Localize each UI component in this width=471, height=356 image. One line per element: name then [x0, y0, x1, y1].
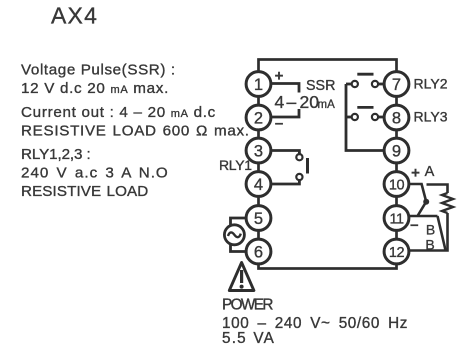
svg-text:5.5 VA: 5.5 VA	[222, 330, 275, 347]
svg-text:RLY3: RLY3	[414, 109, 448, 125]
svg-text:240 V a.c 3 A N.O: 240 V a.c 3 A N.O	[21, 165, 169, 182]
terminal 5	[246, 206, 271, 231]
terminal 11	[384, 206, 409, 231]
svg-text:10: 10	[389, 177, 405, 193]
svg-text:Current out : 4 – 20 mA d.c: Current out : 4 – 20 mA d.c	[21, 104, 216, 121]
wire: relay common down to terminal 9	[346, 84, 385, 151]
svg-text:–: –	[275, 115, 283, 132]
wire: power bracket terminals 5-6	[231, 218, 247, 252]
contact circle top (RLY1)	[296, 154, 302, 160]
terminal 7	[384, 72, 409, 97]
RLY3 contact circles	[352, 114, 358, 120]
svg-text:4: 4	[254, 176, 263, 194]
svg-text:AX4: AX4	[51, 3, 98, 29]
svg-text:RLY2: RLY2	[414, 76, 448, 92]
wire: RLY2 left to common	[346, 83, 352, 86]
svg-text:A: A	[425, 164, 435, 180]
svg-text:Voltage Pulse(SSR) :: Voltage Pulse(SSR) :	[21, 62, 176, 79]
svg-text:2: 2	[254, 109, 263, 127]
svg-text:RLY1: RLY1	[219, 157, 252, 173]
svg-text:RESISTIVE LOAD 600 Ω max.: RESISTIVE LOAD 600 Ω max.	[21, 123, 250, 140]
terminal 1	[246, 72, 271, 97]
svg-text:8: 8	[392, 109, 401, 127]
wire: RLY2 right to terminal 7	[378, 83, 384, 86]
svg-text:+: +	[411, 165, 420, 182]
terminal 10	[384, 172, 409, 197]
svg-text:1: 1	[254, 76, 263, 94]
terminal 8	[384, 105, 409, 130]
wire: SSR + lead from terminal 1	[271, 84, 299, 93]
wire: RLY1 contact from terminal 3	[271, 151, 300, 154]
svg-text:6: 6	[254, 243, 263, 261]
svg-text:–: –	[410, 217, 418, 234]
RLY2 contact bar	[357, 73, 373, 76]
wire: RLY3 left to common	[346, 116, 352, 119]
svg-text:+: +	[275, 68, 284, 85]
svg-text:3: 3	[254, 142, 263, 160]
terminal 2	[246, 105, 271, 130]
wire: A lead to RTD	[427, 185, 448, 194]
svg-text:9: 9	[392, 142, 401, 160]
terminal 12	[384, 239, 409, 264]
TC junction dot	[423, 199, 429, 205]
wire: RLY3 right to terminal 8	[378, 116, 384, 119]
wire: terminal 11 to TC junction and B lead	[409, 202, 446, 251]
terminal 9	[384, 138, 409, 163]
wire: SSR - lead from terminal 2	[271, 109, 299, 117]
RLY3 contact bar	[357, 106, 373, 109]
terminal 6	[246, 239, 271, 264]
wire: RLY1 contact from terminal 4	[271, 180, 300, 184]
svg-text:4–20mA: 4–20mA	[275, 92, 336, 112]
contact circle bottom (RLY1)	[296, 174, 302, 180]
terminal 4	[246, 172, 271, 197]
contact bar RLY1	[306, 158, 309, 174]
RLY2 contact circles	[352, 81, 358, 87]
terminal 3	[246, 138, 271, 163]
svg-text:5: 5	[254, 210, 263, 228]
warning triangle	[229, 263, 254, 291]
wire: RTD bottom to terminal 12	[409, 213, 448, 251]
svg-text:7: 7	[392, 76, 401, 94]
AC source symbol	[224, 225, 244, 245]
svg-text:11: 11	[389, 211, 403, 227]
terminal block outline	[259, 60, 397, 269]
svg-text:RLY1,2,3 :: RLY1,2,3 :	[21, 146, 91, 163]
svg-text:12: 12	[389, 245, 405, 261]
svg-text:POWER: POWER	[222, 297, 273, 314]
RTD resistor	[442, 193, 453, 213]
wire: terminal 10 to TC junction	[409, 184, 426, 202]
svg-text:12 V d.c 20 mA max.: 12 V d.c 20 mA max.	[21, 80, 169, 97]
svg-text:B: B	[426, 222, 435, 238]
svg-text:RESISTIVE LOAD: RESISTIVE LOAD	[21, 183, 148, 200]
